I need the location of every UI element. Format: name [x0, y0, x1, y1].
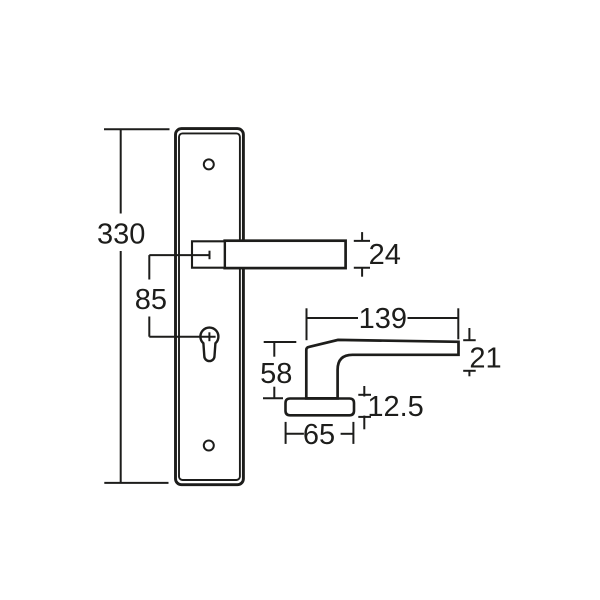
svg-text:139: 139 — [359, 303, 407, 335]
svg-text:21: 21 — [469, 342, 501, 374]
svg-text:24: 24 — [369, 239, 401, 271]
svg-text:65: 65 — [303, 419, 335, 451]
svg-text:58: 58 — [260, 358, 292, 390]
svg-text:12.5: 12.5 — [367, 391, 423, 423]
svg-text:330: 330 — [97, 219, 145, 251]
svg-text:85: 85 — [135, 284, 167, 316]
